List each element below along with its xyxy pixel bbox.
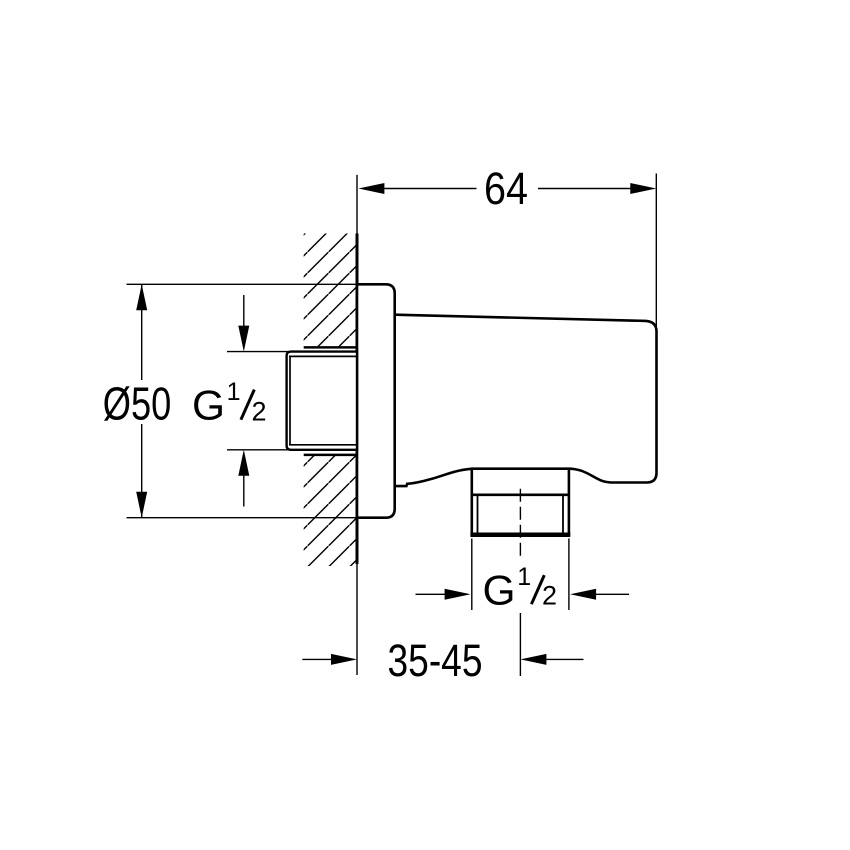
wire dim64 line (384, 188, 477, 190)
nipple inlet thread (287, 352, 357, 450)
wire centerline dashed (519, 489, 521, 558)
svg-text:G: G (192, 382, 225, 429)
wall hole edge upper (304, 346, 357, 349)
node outlet extension lines (471, 539, 473, 611)
wall hatching lower (304, 455, 357, 566)
outlet union (471, 467, 571, 470)
flange escutcheon (357, 284, 395, 517)
wall hatching upper (304, 234, 357, 348)
svg-text:64: 64 (484, 163, 528, 214)
node dim64 extension right (655, 174, 657, 331)
body outline bottom left (395, 469, 472, 486)
body outline top right (395, 315, 657, 483)
node dia50 extensions (127, 283, 358, 285)
svg-text:1: 1 (517, 563, 531, 591)
svg-text:2: 2 (252, 396, 267, 426)
svg-text:1: 1 (227, 378, 241, 406)
node G12 bottom arrows (416, 593, 447, 595)
svg-text:G: G (483, 567, 516, 614)
node dim3545 (302, 658, 332, 660)
wall hole edge lower (304, 454, 357, 457)
svg-text:Ø50: Ø50 (103, 378, 172, 430)
svg-text:2: 2 (542, 581, 557, 611)
wire wall face line (356, 175, 358, 234)
wire dia50 dim line (141, 284, 143, 380)
wire G12 left arrows (243, 295, 245, 330)
svg-text:35-45: 35-45 (388, 635, 483, 686)
node G12 left dim extensions (227, 351, 288, 353)
